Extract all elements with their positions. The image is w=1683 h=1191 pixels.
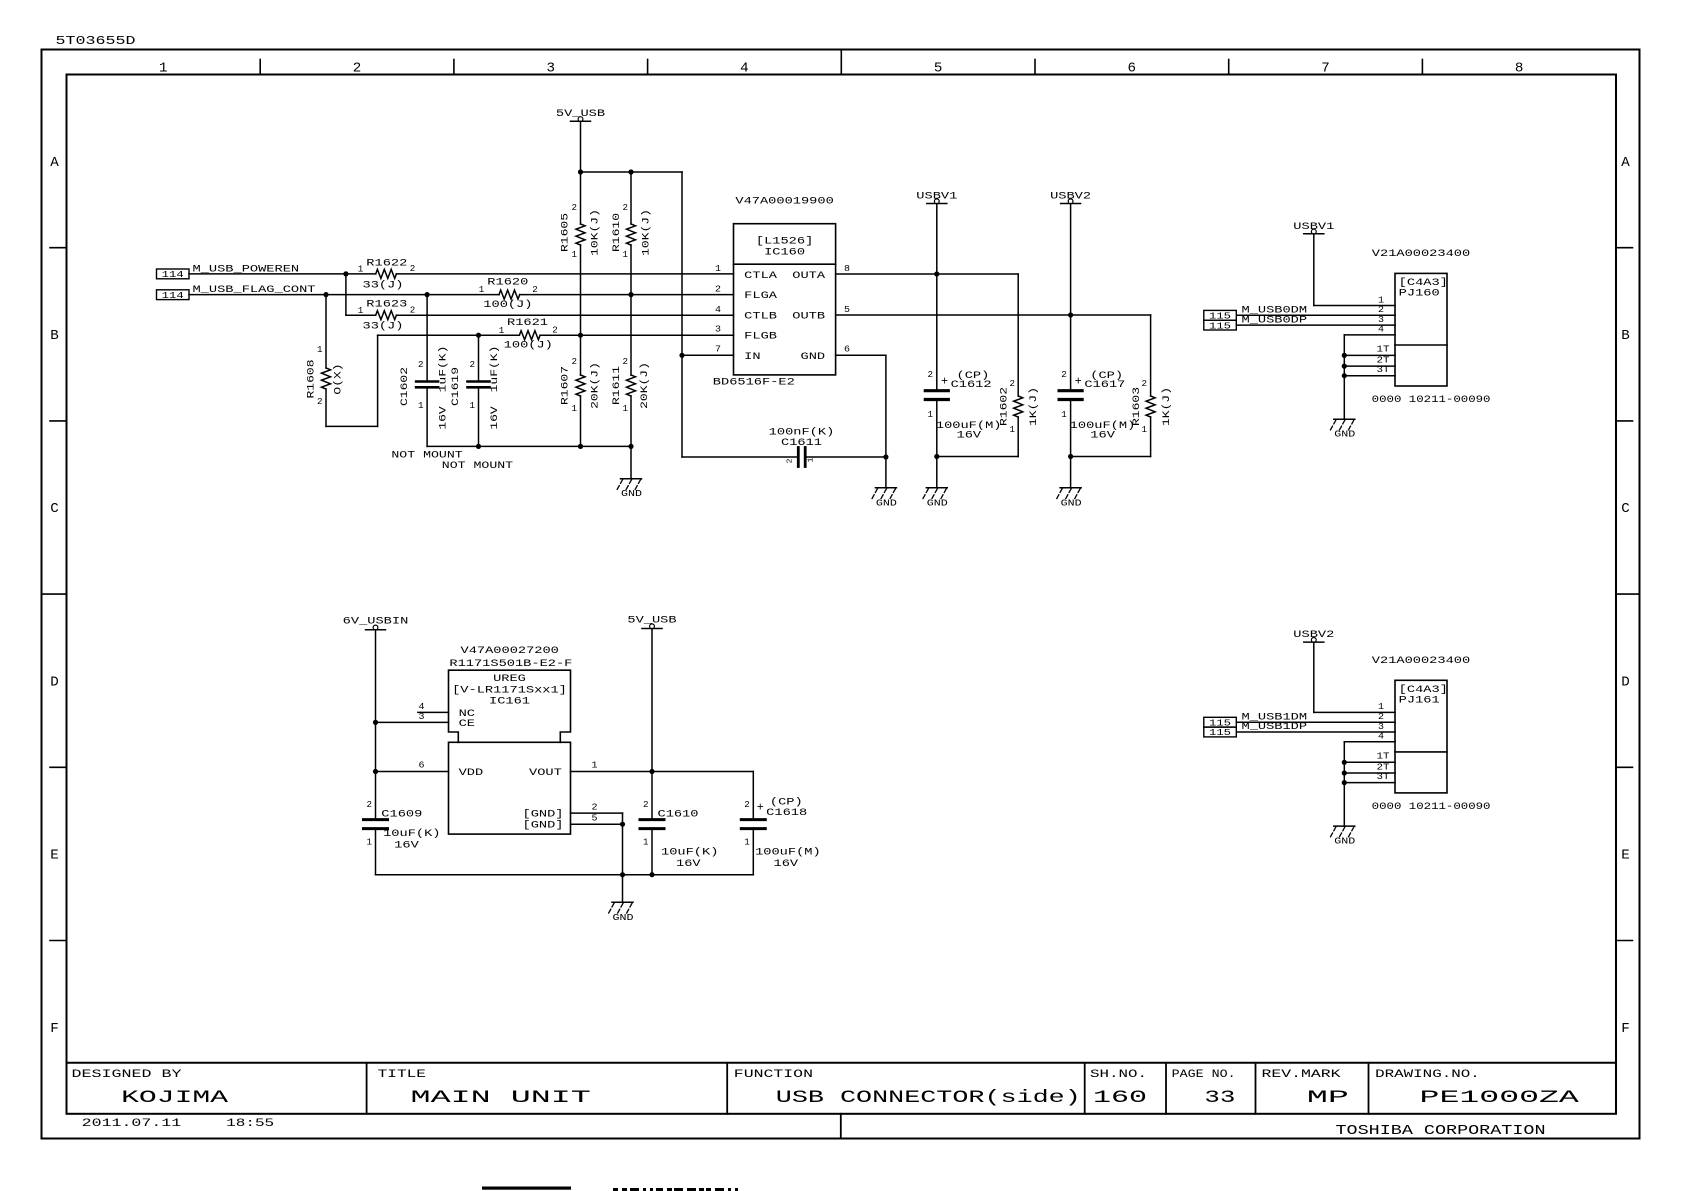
svg-text:16V: 16V <box>957 431 983 442</box>
resistor R1611 <box>630 295 632 375</box>
node junction R1611 bottom <box>628 444 633 449</box>
svg-text:1T: 1T <box>1377 344 1390 355</box>
svg-text:D: D <box>1621 675 1630 690</box>
resistor R1608 <box>325 295 327 368</box>
node junction GND pins <box>620 822 625 827</box>
node junction 5V_USB at VOUT <box>649 769 654 774</box>
svg-text:160: 160 <box>1093 1088 1147 1108</box>
svg-text:2: 2 <box>572 357 578 367</box>
svg-text:1: 1 <box>572 404 578 414</box>
resistor R1605 <box>580 172 582 224</box>
net label M_USB0DP <box>1204 320 1237 330</box>
wire USBV1 to PJ160 pin1 <box>1313 234 1315 306</box>
svg-text:A: A <box>1621 156 1631 171</box>
svg-text:V47A00027200: V47A00027200 <box>461 646 559 657</box>
svg-text:R1611: R1611 <box>612 366 623 405</box>
connector PJ160 body <box>1395 273 1447 386</box>
svg-text:GND: GND <box>1061 497 1082 508</box>
wire bottom rail left group <box>427 445 631 447</box>
svg-text:+: + <box>757 801 764 815</box>
node junction C1617 bottom <box>1068 454 1073 459</box>
capacitor C1602 <box>426 295 428 382</box>
capacitor C1617 rail <box>1070 204 1072 390</box>
svg-text:2: 2 <box>715 283 721 294</box>
connector PJ161 body <box>1395 680 1447 793</box>
svg-text:CE: CE <box>459 719 475 730</box>
svg-text:2: 2 <box>418 360 424 370</box>
wire pin4 to ground rail (PJ161) <box>1344 741 1395 743</box>
svg-text:2: 2 <box>410 306 416 316</box>
svg-text:4: 4 <box>1378 324 1384 335</box>
svg-text:2: 2 <box>592 802 598 813</box>
svg-text:[GND]: [GND] <box>523 809 564 821</box>
wire R1602 bottom <box>937 456 1018 458</box>
svg-text:1: 1 <box>808 457 816 463</box>
svg-text:1: 1 <box>470 401 476 411</box>
svg-text:2: 2 <box>367 800 373 810</box>
svg-text:[GND]: [GND] <box>523 820 564 832</box>
svg-text:NOT MOUNT: NOT MOUNT <box>442 461 513 472</box>
column grid ticks <box>259 60 261 75</box>
svg-text:GND: GND <box>876 497 897 508</box>
svg-text:1T: 1T <box>1377 751 1390 762</box>
wire top rail horizontal <box>581 171 683 173</box>
svg-text:GND: GND <box>801 352 826 363</box>
node junction at R1610 top <box>628 169 633 174</box>
wire 1T (PJ160) <box>1344 354 1395 356</box>
power symbol 6V_USBIN <box>366 629 386 631</box>
svg-text:V21A00023400: V21A00023400 <box>1372 656 1470 667</box>
svg-text:F: F <box>50 1022 59 1037</box>
svg-text:1uF(K): 1uF(K) <box>489 346 501 393</box>
svg-text:2: 2 <box>744 800 750 810</box>
wire OUTB pin5 <box>836 314 1151 316</box>
svg-text:R1623: R1623 <box>366 300 407 311</box>
svg-text:GND: GND <box>613 912 634 923</box>
op-amp IC160 body <box>734 224 836 375</box>
wire M_USB_POWEREN to R1622 <box>189 273 376 275</box>
voltage regulator IC161 upper body <box>449 670 571 742</box>
svg-text:FLGA: FLGA <box>744 291 778 302</box>
svg-text:MP: MP <box>1307 1088 1349 1108</box>
svg-text:2: 2 <box>470 360 476 370</box>
capacitor C1610 rail <box>651 629 653 820</box>
net label M_USB1DP <box>1204 727 1237 737</box>
svg-text:1: 1 <box>358 265 364 275</box>
svg-text:2: 2 <box>532 285 538 295</box>
svg-text:3: 3 <box>715 324 721 335</box>
wire GND pin5 <box>571 823 623 825</box>
svg-text:7: 7 <box>1321 62 1330 77</box>
power symbol USBV1 (filter) <box>927 203 947 205</box>
svg-text:TOSHIBA CORPORATION: TOSHIBA CORPORATION <box>1336 1123 1546 1139</box>
svg-text:2: 2 <box>1010 379 1016 389</box>
power symbol USBV1 (PJ160) <box>1304 233 1324 235</box>
svg-text:R1620: R1620 <box>487 277 528 288</box>
svg-text:2: 2 <box>928 370 934 380</box>
wire CTLB left segment <box>346 314 376 316</box>
svg-text:1: 1 <box>1010 425 1016 435</box>
svg-text:V21A00023400: V21A00023400 <box>1372 249 1470 260</box>
wire 1T (PJ161) <box>1344 761 1395 763</box>
power symbol 5V_USB (lower) <box>642 628 662 630</box>
net label M_USB1DM <box>1204 717 1237 727</box>
wire IN rail vertical <box>681 172 683 457</box>
svg-text:NOT MOUNT: NOT MOUNT <box>391 451 462 462</box>
svg-text:3: 3 <box>419 711 425 722</box>
svg-text:1: 1 <box>479 285 485 295</box>
svg-text:FLGB: FLGB <box>744 332 777 343</box>
svg-text:E: E <box>1621 849 1630 864</box>
svg-text:MAIN UNIT: MAIN UNIT <box>411 1088 591 1108</box>
power symbol 5V_USB (top) <box>571 120 591 122</box>
node junction GND at bottom rail <box>620 872 625 877</box>
node junction C1602 top <box>425 292 430 297</box>
svg-text:SH.NO.: SH.NO. <box>1090 1069 1147 1081</box>
title block frame <box>67 1062 1617 1064</box>
svg-text:16V: 16V <box>394 840 420 851</box>
svg-text:1: 1 <box>1061 410 1067 420</box>
svg-text:1: 1 <box>572 250 578 260</box>
wire M_USB1DM to pin2 <box>1237 721 1395 723</box>
node junction CE <box>373 720 378 725</box>
svg-text:5T03655D: 5T03655D <box>56 35 136 48</box>
wire FLGB to IC160 pin3 <box>540 334 733 336</box>
svg-text:CTLA: CTLA <box>744 271 778 282</box>
wire M_USB_FLAG_CONT to R1620 <box>189 294 499 296</box>
svg-text:R1622: R1622 <box>366 258 407 269</box>
svg-text:C1618: C1618 <box>766 808 807 819</box>
svg-text:3T: 3T <box>1377 771 1390 782</box>
ground GND pin6 <box>875 487 896 489</box>
node junction C1612 bottom <box>934 454 939 459</box>
svg-text:UREG: UREG <box>493 674 526 685</box>
wire GND pin6 <box>836 354 886 356</box>
svg-text:REV.MARK: REV.MARK <box>1262 1069 1342 1081</box>
svg-text:C1611: C1611 <box>781 438 822 449</box>
svg-text:2: 2 <box>1061 370 1067 380</box>
svg-text:100(J): 100(J) <box>483 299 532 311</box>
node junction C1610 bottom <box>649 872 654 877</box>
svg-text:4: 4 <box>740 62 749 77</box>
svg-text:20K(J): 20K(J) <box>590 362 602 409</box>
svg-text:114: 114 <box>162 290 184 301</box>
svg-text:2: 2 <box>643 800 649 810</box>
svg-text:5V_USB: 5V_USB <box>627 615 676 626</box>
ground GND (PJ161) <box>1334 825 1355 827</box>
svg-text:1: 1 <box>715 263 721 274</box>
svg-text:16V: 16V <box>1090 431 1116 442</box>
svg-text:USBV1: USBV1 <box>916 192 957 203</box>
node junction USBV2 at OUTB <box>1068 312 1073 317</box>
svg-text:3T: 3T <box>1377 364 1390 375</box>
wire OUTA pin8 <box>836 273 1019 275</box>
node junction C1619 top <box>476 333 481 338</box>
svg-text:16V: 16V <box>676 859 702 870</box>
svg-text:2: 2 <box>410 264 416 274</box>
node junction USBV1 at OUTA <box>934 271 939 276</box>
svg-text:F: F <box>1621 1022 1630 1037</box>
svg-text:20K(J): 20K(J) <box>639 362 651 409</box>
svg-text:R1610: R1610 <box>612 213 623 252</box>
svg-text:TITLE: TITLE <box>378 1069 426 1081</box>
wire pin4 to ground rail (PJ160) <box>1344 334 1395 336</box>
svg-text:[C4A3]: [C4A3] <box>1399 684 1448 696</box>
svg-text:GND: GND <box>1334 429 1355 440</box>
capacitor C1612 rail <box>936 204 938 390</box>
date row divider <box>840 1114 842 1139</box>
ground GND IC161 <box>612 901 633 903</box>
svg-text:1: 1 <box>358 306 364 316</box>
svg-text:114: 114 <box>162 269 184 280</box>
node junction R1608 top <box>323 292 328 297</box>
ground GND (PJ160) <box>1334 418 1355 420</box>
svg-text:100nF(K): 100nF(K) <box>769 426 835 438</box>
svg-text:115: 115 <box>1209 727 1231 738</box>
svg-text:5: 5 <box>844 304 850 315</box>
svg-text:C: C <box>1621 502 1630 517</box>
wire 5V_USB down <box>580 121 582 172</box>
svg-text:16V: 16V <box>439 405 450 430</box>
svg-text:16V: 16V <box>774 859 800 870</box>
node junction VDD <box>373 769 378 774</box>
wire R1623 branch vertical <box>345 274 347 315</box>
svg-text:6V_USBIN: 6V_USBIN <box>343 616 409 627</box>
wire bottom rail lower circuit <box>376 874 754 876</box>
wire IN pin7 <box>682 354 734 356</box>
capacitor C1619 <box>478 335 480 381</box>
svg-text:1K(J): 1K(J) <box>1161 387 1173 426</box>
svg-text:USBV2: USBV2 <box>1050 192 1091 203</box>
svg-text:R1621: R1621 <box>507 318 548 329</box>
svg-text:[V-LR1171Sxx1]: [V-LR1171Sxx1] <box>452 684 567 696</box>
svg-text:C: C <box>50 502 59 517</box>
svg-text:0000 10211-00090: 0000 10211-00090 <box>1372 395 1491 406</box>
svg-text:GND: GND <box>1334 836 1355 847</box>
svg-text:C1617: C1617 <box>1084 380 1125 391</box>
wire 2T (PJ160) <box>1344 365 1395 367</box>
svg-text:33(J): 33(J) <box>363 279 404 291</box>
node junction C1611 right <box>883 454 888 459</box>
svg-text:PE1000ZA: PE1000ZA <box>1420 1088 1580 1108</box>
svg-text:B: B <box>50 329 59 344</box>
node junction R1623 branch <box>343 271 348 276</box>
row grid ticks <box>50 247 67 249</box>
wire FLGB left segment <box>378 334 520 336</box>
power symbol USBV2 (filter) <box>1061 203 1081 205</box>
resistor R1602 <box>1017 274 1019 396</box>
svg-text:VDD: VDD <box>459 768 484 779</box>
svg-text:2: 2 <box>787 459 795 464</box>
svg-text:8: 8 <box>1515 62 1524 77</box>
wire 2T (PJ161) <box>1344 772 1395 774</box>
wire VDD pin6 <box>376 771 449 773</box>
svg-text:R1608: R1608 <box>307 360 318 399</box>
net label M_USB_POWEREN <box>157 269 190 279</box>
capacitor C1609 <box>364 818 388 821</box>
svg-text:C1602: C1602 <box>400 367 411 406</box>
svg-text:[C4A3]: [C4A3] <box>1399 277 1448 289</box>
svg-text:100uF(M): 100uF(M) <box>755 847 821 859</box>
resistor R1622 <box>376 269 397 278</box>
svg-text:1: 1 <box>592 760 598 771</box>
svg-text:PJ161: PJ161 <box>1399 695 1440 706</box>
svg-text:2: 2 <box>572 203 578 213</box>
node junction R1607 bottom <box>578 444 583 449</box>
svg-text:1: 1 <box>1142 425 1148 435</box>
svg-text:6: 6 <box>1128 62 1137 77</box>
svg-text:2: 2 <box>552 326 558 336</box>
svg-text:V47A00019900: V47A00019900 <box>735 196 833 207</box>
svg-text:C1610: C1610 <box>658 810 699 821</box>
svg-text:NC: NC <box>459 709 475 720</box>
svg-text:18:55: 18:55 <box>226 1118 274 1130</box>
wire M_USB1DP to pin3 <box>1237 731 1395 733</box>
svg-text:[L1526]: [L1526] <box>756 235 813 247</box>
svg-text:1K(J): 1K(J) <box>1028 387 1040 426</box>
svg-text:VOUT: VOUT <box>529 768 562 779</box>
wire 6V_USBIN rail <box>375 630 377 820</box>
svg-text:10K(J): 10K(J) <box>590 209 602 256</box>
svg-text:USB CONNECTOR(side): USB CONNECTOR(side) <box>776 1088 1081 1108</box>
svg-text:DRAWING.NO.: DRAWING.NO. <box>1375 1069 1480 1081</box>
node junction FLGB at R1605/R1607 <box>578 333 583 338</box>
svg-text:2: 2 <box>623 203 629 213</box>
wire FLGA to IC160 pin2 <box>520 294 734 296</box>
node junction at R1605 top <box>578 169 583 174</box>
svg-text:1: 1 <box>928 410 934 420</box>
svg-text:1: 1 <box>499 326 505 336</box>
svg-text:GND: GND <box>927 497 948 508</box>
svg-text:4: 4 <box>1378 731 1384 742</box>
wire USBV2 to PJ161 pin1 <box>1313 642 1315 712</box>
svg-text:USBV2: USBV2 <box>1293 630 1334 641</box>
svg-text:8: 8 <box>844 263 850 274</box>
svg-text:(CP): (CP) <box>770 797 803 809</box>
wire GND rail down <box>622 824 624 902</box>
svg-text:10uF(K): 10uF(K) <box>383 828 440 840</box>
wire R1603 bottom <box>1071 456 1151 458</box>
svg-text:1: 1 <box>159 62 168 77</box>
svg-text:0000 10211-00090: 0000 10211-00090 <box>1372 802 1491 813</box>
svg-text:E: E <box>50 849 59 864</box>
svg-text:3: 3 <box>547 62 556 77</box>
svg-text:R1605: R1605 <box>561 213 572 252</box>
svg-text:1: 1 <box>418 401 424 411</box>
svg-text:C1619: C1619 <box>451 367 462 406</box>
resistor R1621 <box>519 331 540 340</box>
svg-text:C1612: C1612 <box>951 380 992 391</box>
wire M_USB0DP to pin3 <box>1237 324 1395 326</box>
svg-text:BD6516F-E2: BD6516F-E2 <box>713 377 795 388</box>
svg-text:100(J): 100(J) <box>504 340 553 352</box>
svg-text:R1607: R1607 <box>561 366 572 405</box>
svg-text:33: 33 <box>1204 1088 1235 1108</box>
svg-text:PJ160: PJ160 <box>1399 289 1440 300</box>
ground GND left group <box>621 478 642 480</box>
bottom edge scan artifacts <box>482 1187 571 1190</box>
wire CTLB to IC160 pin4 <box>396 314 733 316</box>
resistor R1607 <box>580 335 582 375</box>
svg-text:+: + <box>941 375 948 389</box>
svg-text:6: 6 <box>419 760 425 771</box>
svg-text:2: 2 <box>623 357 629 367</box>
node junction FLGA at R1610/R1611 <box>628 292 633 297</box>
svg-text:33(J): 33(J) <box>363 321 404 333</box>
svg-text:1: 1 <box>623 250 629 260</box>
svg-text:GND: GND <box>621 488 642 499</box>
node junction C1619 bottom <box>476 444 481 449</box>
wire R1608 bottom L to FLGB <box>326 425 378 427</box>
svg-text:C1609: C1609 <box>381 810 422 821</box>
svg-text:B: B <box>1621 329 1630 344</box>
ground GND C1612 <box>926 487 947 489</box>
wire 3T (PJ160) <box>1344 375 1395 377</box>
svg-text:FUNCTION: FUNCTION <box>734 1069 813 1081</box>
svg-text:5: 5 <box>934 62 943 77</box>
svg-text:2: 2 <box>353 62 362 77</box>
svg-text:1: 1 <box>643 838 649 848</box>
power symbol USBV2 (PJ161) <box>1304 641 1324 643</box>
svg-text:1: 1 <box>623 404 629 414</box>
svg-text:2011.07.11: 2011.07.11 <box>82 1118 182 1130</box>
svg-text:+: + <box>1075 375 1082 389</box>
svg-text:5V_USB: 5V_USB <box>556 109 605 120</box>
svg-text:6: 6 <box>844 344 850 355</box>
wire 3T (PJ161) <box>1344 782 1395 784</box>
svg-text:A: A <box>50 156 60 171</box>
ground GND C1617 <box>1060 487 1081 489</box>
resistor R1620 <box>499 290 520 299</box>
svg-text:PAGE NO.: PAGE NO. <box>1172 1069 1236 1081</box>
svg-text:IC161: IC161 <box>489 696 530 707</box>
net label M_USB0DM <box>1204 310 1237 320</box>
svg-text:1uF(K): 1uF(K) <box>438 346 450 393</box>
svg-text:16V: 16V <box>490 405 501 430</box>
svg-text:10K(J): 10K(J) <box>640 209 652 256</box>
svg-text:7: 7 <box>715 344 721 355</box>
wire CE pin3 <box>376 721 449 723</box>
wire M_USB0DM to pin2 <box>1237 314 1395 316</box>
svg-text:O(X): O(X) <box>333 363 345 394</box>
node junction IN <box>679 353 684 358</box>
svg-text:4: 4 <box>715 304 721 315</box>
svg-text:1: 1 <box>744 838 750 848</box>
wire GND pin2 <box>571 812 623 814</box>
svg-text:R1171S501B-E2-F: R1171S501B-E2-F <box>449 659 572 670</box>
svg-text:2: 2 <box>317 397 323 407</box>
svg-text:OUTA: OUTA <box>792 271 826 282</box>
svg-text:1: 1 <box>317 345 323 355</box>
wire CTLA to IC160 pin1 <box>396 273 733 275</box>
svg-text:DESIGNED BY: DESIGNED BY <box>72 1069 183 1081</box>
svg-text:115: 115 <box>1209 320 1231 331</box>
svg-text:5: 5 <box>592 813 598 824</box>
svg-text:10uF(K): 10uF(K) <box>661 847 718 859</box>
svg-text:IC160: IC160 <box>764 247 805 258</box>
svg-text:KOJIMA: KOJIMA <box>121 1088 229 1108</box>
net label M_USB_FLAG_CONT <box>157 290 190 300</box>
svg-text:D: D <box>50 675 59 690</box>
wire NC pin4 stub <box>418 711 449 713</box>
resistor R1610 <box>630 172 632 224</box>
svg-text:2: 2 <box>1142 379 1148 389</box>
capacitor C1618 <box>752 772 754 820</box>
wire to GND left group <box>630 446 632 478</box>
svg-text:OUTB: OUTB <box>792 312 825 323</box>
svg-text:1: 1 <box>367 838 373 848</box>
svg-text:USBV1: USBV1 <box>1293 222 1334 233</box>
